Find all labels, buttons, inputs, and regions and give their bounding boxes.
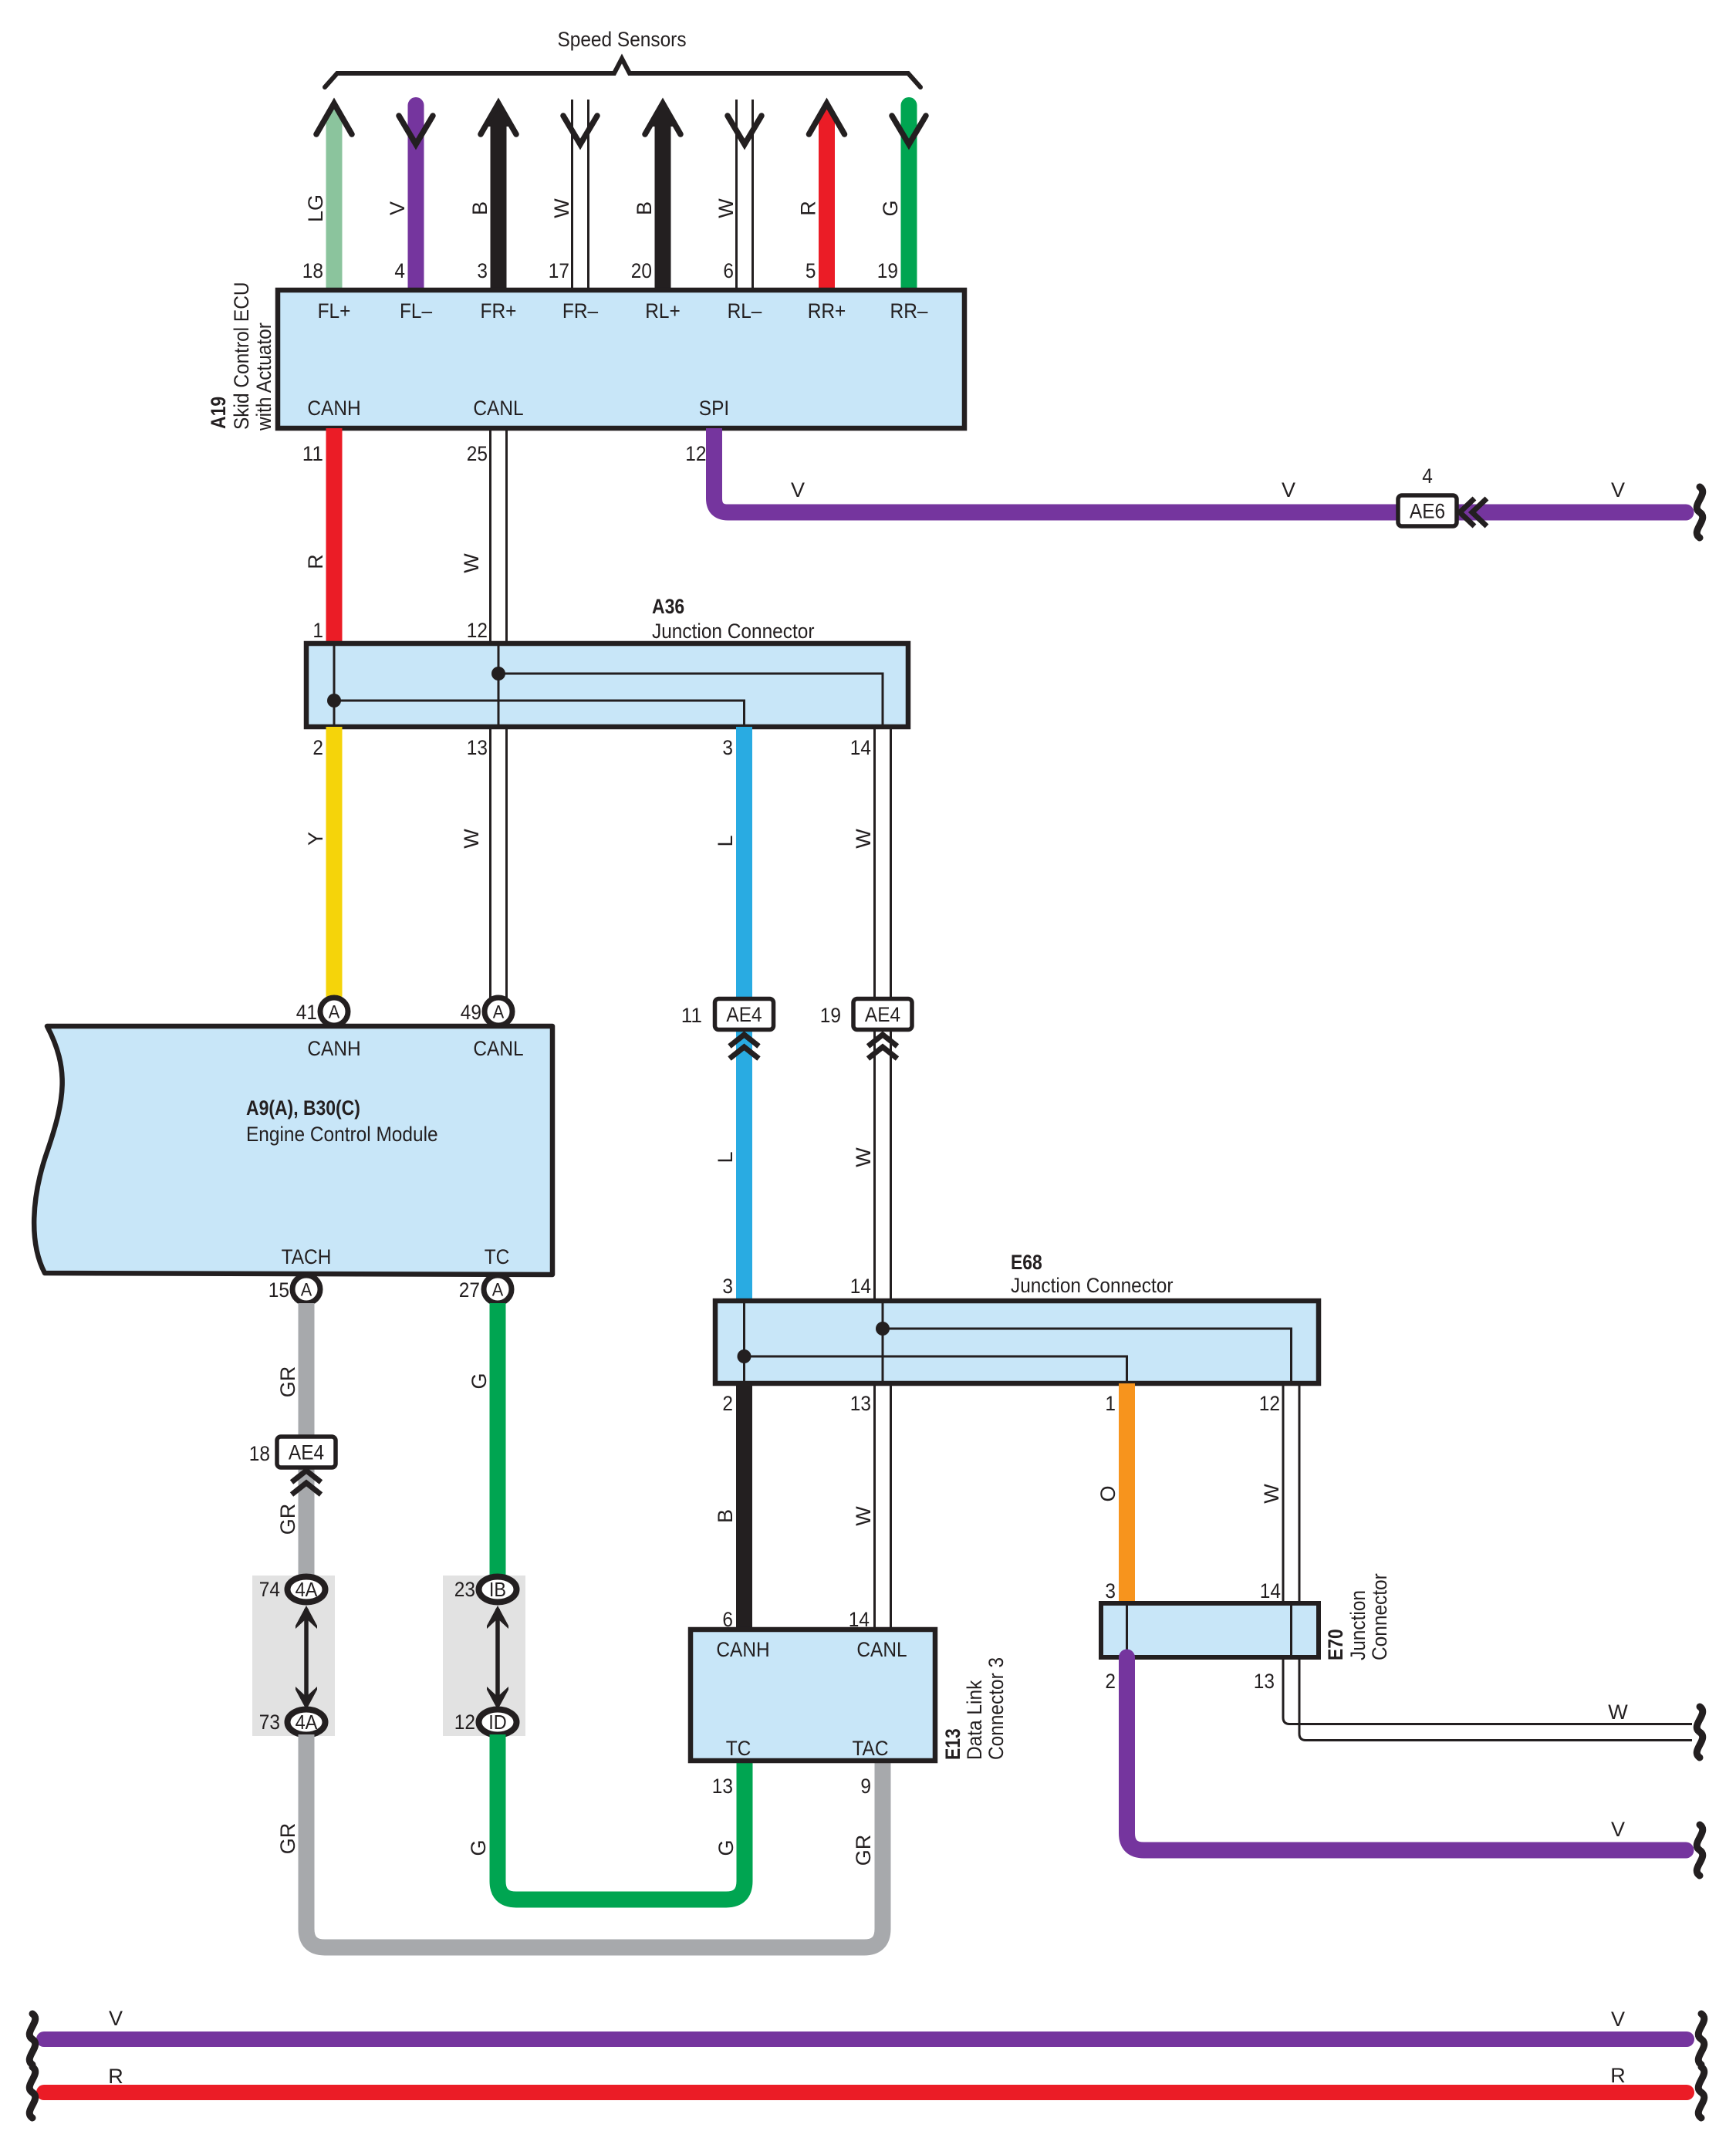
svg-text:19: 19	[877, 259, 898, 282]
svg-text:2: 2	[722, 1392, 733, 1415]
svg-text:E68: E68	[1011, 1251, 1042, 1274]
svg-text:FR+: FR+	[481, 299, 517, 323]
svg-text:73: 73	[259, 1711, 280, 1734]
svg-text:AE4: AE4	[726, 1003, 762, 1026]
svg-text:TC: TC	[485, 1245, 510, 1268]
svg-text:A36: A36	[652, 595, 684, 618]
svg-text:W: W	[1608, 1700, 1628, 1724]
svg-text:CANH: CANH	[307, 397, 360, 420]
svg-text:Y: Y	[304, 832, 327, 846]
svg-text:27: 27	[459, 1278, 480, 1302]
svg-text:GR: GR	[276, 1504, 299, 1535]
svg-text:G: G	[467, 1839, 490, 1856]
svg-text:3: 3	[722, 1275, 733, 1298]
svg-text:E13: E13	[941, 1728, 964, 1760]
svg-text:R: R	[1610, 2064, 1626, 2087]
svg-text:GR: GR	[276, 1366, 299, 1398]
svg-text:SPI: SPI	[699, 397, 729, 420]
svg-text:R: R	[304, 554, 327, 569]
svg-text:2: 2	[1105, 1670, 1116, 1693]
svg-text:Speed Sensors: Speed Sensors	[557, 28, 686, 51]
svg-text:Connector: Connector	[1368, 1573, 1391, 1660]
svg-text:V: V	[1611, 1818, 1625, 1841]
svg-text:W: W	[714, 198, 738, 218]
svg-text:B: B	[633, 201, 656, 215]
svg-text:G: G	[879, 200, 902, 216]
svg-text:13: 13	[1254, 1670, 1275, 1693]
svg-text:41: 41	[296, 1001, 317, 1024]
svg-text:R: R	[797, 201, 820, 216]
svg-text:GR: GR	[852, 1835, 875, 1866]
svg-text:W: W	[1260, 1484, 1283, 1504]
svg-text:9: 9	[860, 1775, 871, 1798]
svg-text:19: 19	[820, 1004, 841, 1027]
svg-text:R: R	[108, 2065, 123, 2088]
svg-text:Skid Control ECU: Skid Control ECU	[230, 282, 253, 431]
svg-text:V: V	[1282, 478, 1295, 502]
svg-text:20: 20	[631, 259, 652, 282]
svg-text:AE6: AE6	[1410, 500, 1445, 523]
svg-text:A: A	[301, 1280, 312, 1301]
svg-text:TAC: TAC	[852, 1737, 888, 1760]
svg-text:V: V	[1611, 478, 1625, 502]
svg-text:W: W	[852, 1506, 875, 1526]
svg-text:11: 11	[681, 1004, 702, 1027]
svg-text:14: 14	[850, 1275, 871, 1298]
svg-text:2: 2	[312, 736, 323, 759]
svg-text:A: A	[329, 1002, 340, 1023]
svg-text:RR+: RR+	[808, 299, 846, 323]
svg-text:17: 17	[549, 259, 569, 282]
svg-text:G: G	[714, 1839, 738, 1856]
svg-text:A: A	[493, 1002, 505, 1023]
svg-text:V: V	[386, 201, 409, 215]
svg-text:11: 11	[302, 442, 323, 465]
svg-text:W: W	[852, 1147, 875, 1167]
svg-text:1: 1	[1105, 1392, 1116, 1415]
svg-text:4A: 4A	[296, 1578, 318, 1601]
svg-text:CANH: CANH	[307, 1037, 360, 1060]
svg-text:5: 5	[806, 259, 816, 282]
svg-text:W: W	[460, 829, 483, 849]
svg-text:14: 14	[1260, 1579, 1281, 1603]
svg-text:TACH: TACH	[282, 1245, 332, 1268]
svg-text:LG: LG	[304, 194, 327, 222]
svg-text:A: A	[492, 1280, 504, 1301]
svg-text:W: W	[550, 198, 573, 218]
svg-text:A19: A19	[207, 397, 230, 429]
svg-text:CANL: CANL	[473, 397, 523, 420]
svg-text:Engine Control Module: Engine Control Module	[246, 1123, 438, 1146]
svg-text:L: L	[714, 835, 737, 846]
svg-text:CANL: CANL	[473, 1037, 523, 1060]
svg-text:TC: TC	[726, 1737, 751, 1760]
svg-text:74: 74	[259, 1578, 280, 1601]
svg-text:W: W	[460, 553, 483, 573]
svg-text:ID: ID	[488, 1711, 507, 1734]
svg-text:FL–: FL–	[400, 299, 432, 323]
svg-text:GR: GR	[276, 1823, 299, 1855]
svg-text:AE4: AE4	[289, 1441, 324, 1464]
svg-text:3: 3	[1105, 1579, 1116, 1603]
svg-text:Connector 3: Connector 3	[985, 1657, 1008, 1760]
svg-text:Junction Connector: Junction Connector	[652, 620, 815, 643]
svg-text:13: 13	[712, 1775, 733, 1798]
svg-text:V: V	[109, 2007, 123, 2030]
svg-text:4: 4	[1422, 464, 1433, 488]
svg-text:12: 12	[1259, 1392, 1280, 1415]
svg-text:FL+: FL+	[318, 299, 351, 323]
svg-text:B: B	[468, 201, 491, 215]
svg-text:4A: 4A	[296, 1711, 318, 1734]
svg-text:23: 23	[454, 1578, 475, 1601]
svg-text:G: G	[468, 1373, 491, 1389]
svg-text:CANH: CANH	[716, 1638, 769, 1661]
svg-text:14: 14	[850, 736, 871, 759]
svg-text:15: 15	[269, 1278, 289, 1302]
svg-text:RL+: RL+	[645, 299, 681, 323]
svg-text:4: 4	[394, 259, 405, 282]
svg-text:E70: E70	[1324, 1629, 1347, 1660]
svg-text:Data Link: Data Link	[963, 1680, 986, 1760]
svg-text:V: V	[1611, 2008, 1625, 2031]
svg-text:25: 25	[467, 442, 488, 465]
svg-text:AE4: AE4	[865, 1003, 900, 1026]
svg-text:with Actuator: with Actuator	[252, 323, 275, 431]
svg-text:49: 49	[461, 1001, 481, 1024]
svg-text:12: 12	[467, 619, 488, 642]
svg-text:Junction: Junction	[1346, 1590, 1370, 1660]
svg-text:CANL: CANL	[856, 1638, 907, 1661]
svg-text:18: 18	[249, 1442, 270, 1465]
svg-text:L: L	[714, 1151, 737, 1163]
svg-text:13: 13	[850, 1392, 871, 1415]
svg-text:12: 12	[685, 442, 706, 465]
svg-text:O: O	[1096, 1485, 1120, 1501]
svg-text:Junction Connector: Junction Connector	[1011, 1274, 1174, 1297]
svg-text:RR–: RR–	[890, 299, 928, 323]
svg-text:18: 18	[302, 259, 323, 282]
svg-text:IB: IB	[489, 1578, 506, 1601]
svg-text:1: 1	[312, 619, 323, 642]
svg-text:3: 3	[722, 736, 733, 759]
svg-text:A9(A), B30(C): A9(A), B30(C)	[246, 1096, 360, 1120]
svg-text:RL–: RL–	[728, 299, 762, 323]
svg-text:W: W	[852, 829, 875, 849]
svg-text:13: 13	[467, 736, 488, 759]
svg-text:3: 3	[477, 259, 488, 282]
svg-text:V: V	[791, 478, 805, 502]
svg-text:12: 12	[454, 1711, 475, 1734]
svg-text:6: 6	[723, 259, 734, 282]
svg-text:B: B	[714, 1509, 737, 1523]
svg-text:FR–: FR–	[562, 299, 598, 323]
